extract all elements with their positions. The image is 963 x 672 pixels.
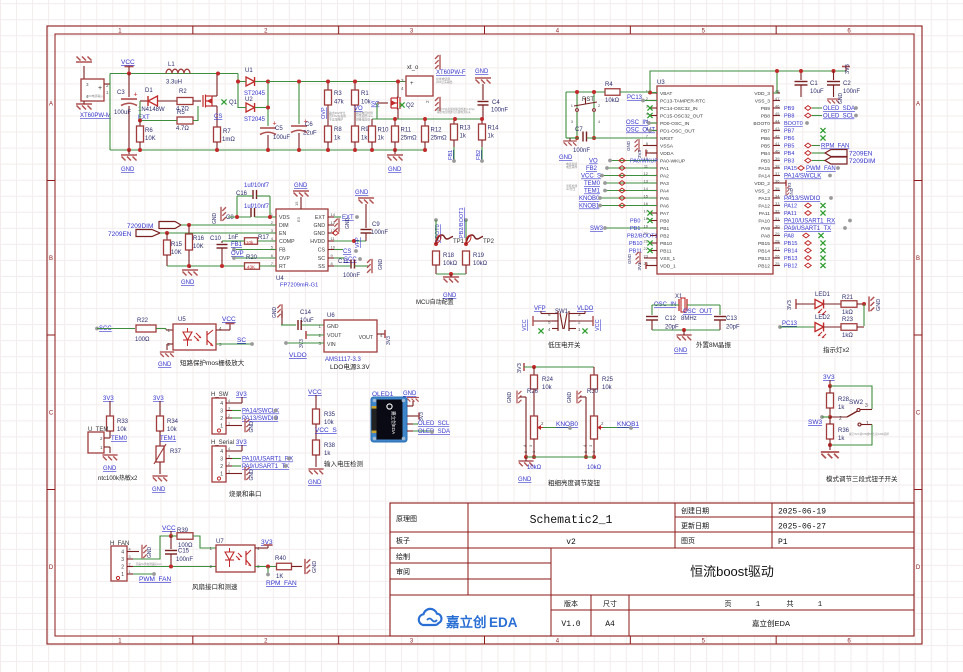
svg-text:R11: R11 xyxy=(401,128,412,134)
svg-text:47: 47 xyxy=(775,96,780,101)
svg-text:A: A xyxy=(916,101,920,107)
svg-text:10K: 10K xyxy=(171,250,182,256)
svg-text:10kΩ: 10kΩ xyxy=(443,261,458,267)
svg-text:FB2: FB2 xyxy=(476,150,482,160)
svg-text:低压电开关: 低压电开关 xyxy=(548,340,581,349)
svg-text:VDS: VDS xyxy=(279,215,290,221)
svg-text:GND: GND xyxy=(567,392,573,404)
svg-text:GND: GND xyxy=(103,466,117,472)
svg-text:20pF: 20pF xyxy=(726,325,740,331)
svg-text:3: 3 xyxy=(528,444,533,447)
svg-text:XT60PW-M: XT60PW-M xyxy=(80,113,111,119)
svg-text:3V3: 3V3 xyxy=(823,374,835,381)
svg-text:图页: 图页 xyxy=(681,537,695,545)
svg-text:VCC: VCC xyxy=(522,319,528,331)
svg-text:U2: U2 xyxy=(245,97,253,103)
svg-text:输入电压检测: 输入电压检测 xyxy=(324,459,364,468)
svg-text:GND: GND xyxy=(388,167,402,173)
svg-text:VCC: VCC xyxy=(308,389,322,396)
svg-text:1: 1 xyxy=(578,327,581,332)
svg-text:PB10: PB10 xyxy=(629,241,642,247)
svg-text:C: C xyxy=(916,410,921,416)
svg-text:1k: 1k xyxy=(361,136,368,142)
svg-text:R8: R8 xyxy=(334,127,342,133)
svg-text:43K: 43K xyxy=(247,265,255,270)
svg-text:47k: 47k xyxy=(334,100,345,106)
svg-text:板子: 板子 xyxy=(396,536,410,545)
svg-text:4: 4 xyxy=(401,86,404,91)
svg-text:4: 4 xyxy=(129,548,131,552)
svg-text:36: 36 xyxy=(775,179,780,184)
svg-text:1: 1 xyxy=(220,424,223,430)
svg-text:100nF: 100nF xyxy=(343,273,360,279)
svg-text:VCC: VCC xyxy=(162,525,176,532)
svg-text:C1: C1 xyxy=(810,81,818,87)
svg-text:PA15: PA15 xyxy=(758,166,770,172)
svg-text:R5: R5 xyxy=(177,110,185,116)
svg-text:SC: SC xyxy=(371,102,380,108)
svg-text:VSS_3: VSS_3 xyxy=(755,99,771,105)
svg-text:GND: GND xyxy=(313,223,325,229)
svg-text:TEM0: TEM0 xyxy=(584,181,601,187)
svg-text:3V3: 3V3 xyxy=(517,363,523,373)
svg-text:100nF: 100nF xyxy=(491,108,508,114)
svg-text:PD1-OSC_OUT: PD1-OSC_OUT xyxy=(660,129,695,135)
svg-text:3V3: 3V3 xyxy=(845,64,851,74)
svg-text:25: 25 xyxy=(775,261,780,266)
svg-text:10kΩ: 10kΩ xyxy=(527,465,542,471)
svg-text:审阅: 审阅 xyxy=(396,567,410,576)
svg-text:3: 3 xyxy=(578,312,581,317)
svg-text:测量电压值: 测量电压值 xyxy=(356,117,370,121)
svg-text:R6: R6 xyxy=(145,128,153,134)
svg-text:R22: R22 xyxy=(137,318,149,324)
svg-text:R14: R14 xyxy=(488,126,500,132)
svg-text:GND: GND xyxy=(876,299,882,311)
svg-text:C15: C15 xyxy=(178,549,190,555)
svg-text:PA3: PA3 xyxy=(660,181,669,187)
svg-text:R7: R7 xyxy=(223,129,231,135)
svg-text:原理图: 原理图 xyxy=(396,515,417,523)
svg-text:VBAT: VBAT xyxy=(660,91,672,97)
svg-text:5: 5 xyxy=(702,28,706,34)
svg-text:GND: GND xyxy=(212,213,218,225)
svg-text:10kΩ: 10kΩ xyxy=(605,98,620,104)
svg-text:LDO电源3.3V: LDO电源3.3V xyxy=(330,362,370,371)
svg-text:PB14: PB14 xyxy=(784,249,797,255)
svg-text:VDD_3: VDD_3 xyxy=(754,91,770,97)
svg-text:6: 6 xyxy=(847,638,851,644)
svg-text:烧录和串口: 烧录和串口 xyxy=(229,489,262,498)
svg-text:7209EN: 7209EN xyxy=(108,231,132,238)
svg-text:PA0/WKUP: PA0/WKUP xyxy=(630,159,658,165)
svg-text:9: 9 xyxy=(331,253,334,258)
svg-text:PB7: PB7 xyxy=(784,129,794,135)
svg-text:PB9: PB9 xyxy=(784,106,794,112)
svg-text:OSC_OUT: OSC_OUT xyxy=(683,309,712,315)
svg-text:1kΩ: 1kΩ xyxy=(842,333,853,339)
svg-text:1N4148W: 1N4148W xyxy=(138,107,165,113)
svg-text:1uf/10nf7: 1uf/10nf7 xyxy=(244,204,270,210)
svg-text:PB2/BOOT1: PB2/BOOT1 xyxy=(459,207,465,238)
svg-text:AMS1117-3.3: AMS1117-3.3 xyxy=(325,357,361,363)
svg-text:C13: C13 xyxy=(726,316,738,322)
svg-text:1: 1 xyxy=(571,103,574,108)
svg-text:100nF: 100nF xyxy=(176,557,193,563)
svg-text:R2: R2 xyxy=(179,89,187,95)
svg-text:30: 30 xyxy=(775,224,780,229)
svg-text:PA15: PA15 xyxy=(784,166,797,172)
svg-text:PB14: PB14 xyxy=(758,249,770,255)
svg-text:25mΩ: 25mΩ xyxy=(401,136,418,142)
svg-text:D: D xyxy=(916,565,921,571)
svg-text:4: 4 xyxy=(271,236,274,241)
svg-text:4: 4 xyxy=(548,327,551,332)
svg-text:OLED_SDA: OLED_SDA xyxy=(418,429,450,435)
svg-text:PB6: PB6 xyxy=(761,136,771,142)
svg-text:R37: R37 xyxy=(170,449,182,455)
svg-text:22uF: 22uF xyxy=(303,131,317,137)
svg-text:3V3: 3V3 xyxy=(637,149,642,158)
svg-text:C: C xyxy=(49,410,54,416)
svg-text:+: + xyxy=(134,92,138,99)
svg-text:7209DIM: 7209DIM xyxy=(849,158,875,165)
svg-text:2: 2 xyxy=(121,565,124,571)
svg-text:10k: 10k xyxy=(324,420,335,426)
svg-text:5: 5 xyxy=(271,245,274,250)
svg-text:5: 5 xyxy=(702,638,706,644)
svg-text:GND: GND xyxy=(294,183,308,189)
svg-text:C9: C9 xyxy=(372,222,380,228)
svg-text:2: 2 xyxy=(598,103,601,108)
svg-text:EXT: EXT xyxy=(315,215,326,221)
svg-text:2: 2 xyxy=(264,638,268,644)
svg-text:VCC: VCC xyxy=(121,59,135,66)
svg-text:PB5: PB5 xyxy=(761,144,771,150)
svg-text:PB6: PB6 xyxy=(784,136,794,142)
svg-text:PB2/BOOT1: PB2/BOOT1 xyxy=(627,234,658,240)
svg-text:6: 6 xyxy=(847,28,851,34)
svg-text:HVDD: HVDD xyxy=(310,239,325,245)
svg-text:PB1: PB1 xyxy=(660,226,670,232)
svg-text:10K: 10K xyxy=(145,136,156,142)
svg-text:C8: C8 xyxy=(226,215,234,221)
svg-text:1k: 1k xyxy=(838,405,845,411)
svg-text:2: 2 xyxy=(578,320,581,325)
svg-text:R20: R20 xyxy=(246,255,258,261)
svg-text:LED2: LED2 xyxy=(815,315,831,321)
svg-text:3: 3 xyxy=(571,119,574,124)
svg-text:KNOB1: KNOB1 xyxy=(617,421,639,428)
svg-text:28: 28 xyxy=(775,239,780,244)
svg-text:BOOT0: BOOT0 xyxy=(753,121,770,127)
svg-text:3: 3 xyxy=(220,457,223,463)
svg-text:GND: GND xyxy=(272,307,278,319)
svg-text:3V3: 3V3 xyxy=(419,412,425,421)
svg-text:U5: U5 xyxy=(178,317,186,323)
svg-text:VDD_2: VDD_2 xyxy=(754,181,770,187)
svg-text:SC: SC xyxy=(237,337,246,344)
svg-text:R40: R40 xyxy=(275,556,287,562)
svg-text:PC14-OSC32_IN: PC14-OSC32_IN xyxy=(660,106,698,112)
svg-text:PC13-TAMPER-RTC: PC13-TAMPER-RTC xyxy=(660,99,706,105)
svg-text:15: 15 xyxy=(294,201,299,206)
svg-text:1k: 1k xyxy=(838,436,845,442)
svg-text:PA5: PA5 xyxy=(660,196,669,202)
svg-text:xt60公头输出: xt60公头输出 xyxy=(436,80,453,84)
svg-text:嘉立创EDA: 嘉立创EDA xyxy=(752,618,790,628)
svg-text:40: 40 xyxy=(775,149,780,154)
svg-text:PB10: PB10 xyxy=(660,241,672,247)
svg-text:1k: 1k xyxy=(334,136,341,142)
svg-text:42: 42 xyxy=(775,134,780,139)
svg-text:+: + xyxy=(410,81,414,87)
svg-text:VCC: VCC xyxy=(595,319,601,331)
svg-text:EDA: EDA xyxy=(489,615,518,630)
svg-text:1k: 1k xyxy=(488,134,495,140)
svg-text:R17: R17 xyxy=(258,235,270,241)
svg-text:SW3: SW3 xyxy=(808,419,822,426)
svg-text:GND: GND xyxy=(559,155,573,161)
svg-text:PC13: PC13 xyxy=(782,321,798,327)
svg-text:VSS_1: VSS_1 xyxy=(660,256,676,262)
svg-text:恒流boost驱动: 恒流boost驱动 xyxy=(690,564,774,579)
svg-text:LED1: LED1 xyxy=(815,292,831,298)
svg-text:TEM1: TEM1 xyxy=(584,189,601,195)
svg-text:C2: C2 xyxy=(843,81,851,87)
svg-text:7209EN: 7209EN xyxy=(849,151,873,158)
svg-text:4: 4 xyxy=(556,28,560,34)
svg-text:1uf/10nf7: 1uf/10nf7 xyxy=(244,183,270,189)
svg-text:1k: 1k xyxy=(460,134,467,140)
svg-text:1: 1 xyxy=(118,28,122,34)
svg-text:3: 3 xyxy=(410,638,414,644)
svg-text:PB7: PB7 xyxy=(761,129,771,135)
svg-text:31: 31 xyxy=(775,216,780,221)
svg-text:1nF: 1nF xyxy=(228,235,239,241)
svg-text:VFP: VFP xyxy=(534,306,546,312)
svg-text:C12: C12 xyxy=(665,316,677,322)
svg-text:PB3: PB3 xyxy=(761,159,771,165)
svg-text:32: 32 xyxy=(775,209,780,214)
svg-text:2025-06-19: 2025-06-19 xyxy=(778,508,826,517)
svg-text:R35: R35 xyxy=(324,412,336,418)
svg-text:2: 2 xyxy=(228,414,230,418)
svg-text:1: 1 xyxy=(756,601,760,609)
svg-text:PB11: PB11 xyxy=(660,249,672,255)
svg-text:RPM_FAN: RPM_FAN xyxy=(821,144,849,150)
svg-text:C11: C11 xyxy=(338,259,349,265)
svg-text:嘉立创EDA: 嘉立创EDA xyxy=(390,411,397,435)
svg-text:1: 1 xyxy=(121,572,124,578)
svg-text:PB12: PB12 xyxy=(784,264,797,270)
svg-text:37: 37 xyxy=(775,171,780,176)
svg-text:GND: GND xyxy=(355,190,369,196)
svg-text:14: 14 xyxy=(331,212,336,217)
svg-text:GND: GND xyxy=(312,561,318,573)
svg-text:PB13: PB13 xyxy=(784,256,797,262)
svg-text:P1: P1 xyxy=(778,538,788,547)
svg-text:PA10/USART1_RX: PA10/USART1_RX xyxy=(784,219,835,225)
svg-text:VCC_S: VCC_S xyxy=(315,427,337,434)
svg-text:SC: SC xyxy=(318,256,325,262)
svg-text:PB5: PB5 xyxy=(784,144,794,150)
svg-text:26: 26 xyxy=(775,254,780,259)
svg-text:20pF: 20pF xyxy=(665,325,679,331)
svg-text:风扇接口和测速: 风扇接口和测速 xyxy=(192,582,238,591)
svg-text:PB3: PB3 xyxy=(784,159,794,165)
svg-text:R13: R13 xyxy=(460,126,472,132)
svg-text:FP7209mR-G1: FP7209mR-G1 xyxy=(280,283,318,289)
svg-text:10kΩ: 10kΩ xyxy=(473,261,488,267)
svg-text:PB2: PB2 xyxy=(660,234,670,240)
svg-text:PA12: PA12 xyxy=(758,204,770,210)
svg-text:CS: CS xyxy=(318,248,326,254)
svg-text:11: 11 xyxy=(331,236,336,241)
svg-text:KNOB1: KNOB1 xyxy=(579,204,600,210)
svg-text:PA14/SWCLK: PA14/SWCLK xyxy=(242,409,279,415)
svg-text:OLED_SCL: OLED_SCL xyxy=(823,114,855,120)
svg-text:2: 2 xyxy=(839,416,842,422)
svg-text:FB2: FB2 xyxy=(586,166,598,172)
svg-text:更新日期: 更新日期 xyxy=(681,521,709,530)
svg-text:10kΩ: 10kΩ xyxy=(587,465,602,471)
svg-text:2: 2 xyxy=(601,421,604,426)
svg-text:3: 3 xyxy=(121,557,124,563)
svg-text:GND: GND xyxy=(443,293,457,299)
svg-text:创建日期: 创建日期 xyxy=(681,506,709,515)
svg-text:ST2045: ST2045 xyxy=(244,117,266,123)
svg-text:PA4: PA4 xyxy=(660,189,669,195)
svg-text:45: 45 xyxy=(775,111,780,116)
svg-text:10k: 10k xyxy=(542,385,553,391)
svg-text:外置8M晶振: 外置8M晶振 xyxy=(696,340,732,349)
svg-text:PWM_FAN: PWM_FAN xyxy=(139,576,171,583)
svg-text:VLDO: VLDO xyxy=(289,352,307,359)
svg-text:Schematic2_1: Schematic2_1 xyxy=(530,514,613,527)
svg-text:PA8: PA8 xyxy=(761,234,770,240)
svg-text:PB13: PB13 xyxy=(758,256,770,262)
svg-text:VO: VO xyxy=(589,159,598,165)
svg-text:Q2: Q2 xyxy=(406,103,415,109)
svg-text:100nF: 100nF xyxy=(371,230,388,236)
svg-text:10uF: 10uF xyxy=(810,89,824,95)
svg-text:3V3: 3V3 xyxy=(637,262,642,271)
svg-text:D1: D1 xyxy=(145,88,153,94)
svg-text:B: B xyxy=(49,256,53,262)
svg-text:VDD_1: VDD_1 xyxy=(660,264,676,270)
svg-text:粗细亮度调节旋钮: 粗细亮度调节旋钮 xyxy=(548,478,601,487)
svg-text:CS: CS xyxy=(214,114,222,120)
svg-text:指示灯x2: 指示灯x2 xyxy=(823,345,850,354)
svg-text:H_SW: H_SW xyxy=(211,392,229,398)
svg-text:10: 10 xyxy=(331,245,336,250)
svg-text:10K: 10K xyxy=(193,244,204,250)
svg-text:38: 38 xyxy=(775,164,780,169)
svg-text:短路保护mos栅极放大: 短路保护mos栅极放大 xyxy=(180,358,245,367)
svg-text:2: 2 xyxy=(129,563,131,567)
svg-text:3.3uH: 3.3uH xyxy=(166,80,182,86)
svg-text:GND: GND xyxy=(147,547,153,559)
svg-text:FB1: FB1 xyxy=(231,242,243,248)
svg-text:43: 43 xyxy=(775,126,780,131)
svg-text:共: 共 xyxy=(787,599,794,608)
svg-text:绘制: 绘制 xyxy=(396,552,410,561)
svg-text:10uF: 10uF xyxy=(300,318,314,324)
svg-text:2: 2 xyxy=(271,220,274,225)
svg-text:2: 2 xyxy=(220,464,223,470)
svg-text:2: 2 xyxy=(228,462,230,466)
svg-text:3V3: 3V3 xyxy=(386,336,392,345)
svg-text:SS: SS xyxy=(318,264,325,270)
svg-text:PA9/USART1_TX: PA9/USART1_TX xyxy=(784,226,831,232)
svg-text:PA14/SWCLK: PA14/SWCLK xyxy=(784,174,821,180)
svg-text:RPM_FAN: RPM_FAN xyxy=(266,580,297,587)
svg-text:KNOB0: KNOB0 xyxy=(556,421,578,428)
svg-text:GND: GND xyxy=(345,218,351,230)
svg-text:VCC_S: VCC_S xyxy=(581,174,601,180)
svg-text:KNOB0: KNOB0 xyxy=(579,196,600,202)
svg-text:VFP: VFP xyxy=(355,237,361,248)
svg-text:EN: EN xyxy=(279,231,286,237)
svg-text:4: 4 xyxy=(220,449,223,455)
svg-text:R1: R1 xyxy=(361,91,369,97)
svg-text:4: 4 xyxy=(598,119,601,124)
svg-text:GND: GND xyxy=(674,348,688,354)
svg-text:1: 1 xyxy=(228,422,230,426)
svg-text:U4: U4 xyxy=(276,276,284,282)
svg-text:悬空3V3 拨678或56档 接GND选择: 悬空3V3 拨678或56档 接GND选择 xyxy=(849,432,889,436)
svg-text:U7: U7 xyxy=(216,539,224,545)
svg-text:E3: E3 xyxy=(296,216,301,222)
svg-text:FB1: FB1 xyxy=(448,150,454,160)
svg-text:GND: GND xyxy=(475,69,489,75)
svg-text:R12: R12 xyxy=(431,128,443,134)
svg-text:尺寸: 尺寸 xyxy=(603,599,617,608)
svg-text:2: 2 xyxy=(220,416,223,422)
svg-text:1mΩ: 1mΩ xyxy=(222,137,235,143)
svg-text:35: 35 xyxy=(775,186,780,191)
svg-text:VIN: VIN xyxy=(327,342,336,348)
svg-text:10k: 10k xyxy=(167,427,178,433)
svg-text:GND: GND xyxy=(507,392,513,404)
svg-text:PA9: PA9 xyxy=(761,226,770,232)
svg-text:8: 8 xyxy=(331,261,334,266)
svg-text:C3: C3 xyxy=(117,90,125,96)
svg-text:A4: A4 xyxy=(605,620,615,629)
svg-text:PB0: PB0 xyxy=(660,219,670,225)
svg-text:U3: U3 xyxy=(657,80,665,86)
svg-text:VDDA: VDDA xyxy=(660,151,674,157)
svg-text:1: 1 xyxy=(106,90,109,95)
svg-text:ntc分压: ntc分压 xyxy=(566,187,576,191)
svg-text:3: 3 xyxy=(129,555,131,559)
svg-text:29: 29 xyxy=(775,231,780,236)
svg-text:xt60电源输入: xt60电源输入 xyxy=(86,93,104,98)
svg-text:R10: R10 xyxy=(378,128,390,134)
svg-text:GND: GND xyxy=(327,324,339,330)
svg-text:PD0-OSC_IN: PD0-OSC_IN xyxy=(660,121,690,127)
svg-text:10k: 10k xyxy=(117,427,128,433)
svg-text:3: 3 xyxy=(220,409,223,415)
svg-text:VOUT: VOUT xyxy=(359,335,374,341)
svg-text:U6: U6 xyxy=(327,313,335,319)
svg-text:GND: GND xyxy=(152,487,166,493)
svg-text:C5: C5 xyxy=(275,126,283,132)
svg-text:GND: GND xyxy=(249,469,255,481)
svg-text:GND: GND xyxy=(313,231,325,237)
svg-text:46: 46 xyxy=(775,104,780,109)
